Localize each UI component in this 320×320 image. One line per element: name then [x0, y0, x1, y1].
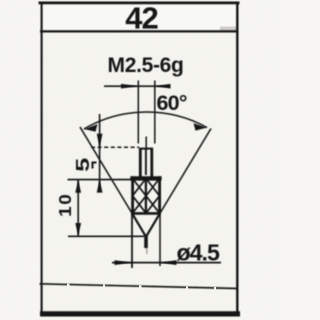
10 dimension line vertical [77, 180, 79, 236]
contact tip cylinder [144, 236, 148, 248]
cone angle line left [80, 127, 146, 237]
frame right border [236, 2, 238, 314]
phi 4.5 extension line right [159, 214, 161, 266]
5 dim arrow top (points down) [97, 134, 103, 147]
phi dim arrow right (points left) [160, 260, 176, 265]
knurl center vertical line [145, 179, 147, 214]
frame bottom thick bar [40, 311, 240, 316]
thread dimension extension line right [154, 81, 156, 144]
frame top border [39, 2, 240, 5]
knurl lattice main diagonal B [133, 179, 160, 214]
svg-text:5: 5 [72, 158, 93, 172]
10 dim arrow top (points up) [75, 180, 81, 193]
nicks in bottom rule [67, 284, 70, 287]
phi 4.5 extension line left [131, 214, 133, 268]
cone tip right slant [146, 214, 160, 237]
knurl lattice main diagonal A [133, 179, 160, 214]
stem top edge [139, 148, 153, 150]
body top thick bar [130, 176, 161, 180]
phi 4.5 dimension line [112, 262, 221, 264]
body left edge [131, 176, 134, 214]
stem right edge [150, 148, 153, 177]
cone angle line right [146, 129, 211, 237]
thread dimension line M2.5 [104, 85, 168, 87]
cone tip left slant [132, 214, 146, 237]
body bottom edge [131, 212, 161, 215]
5 dimension dashed extension (stem top level) [91, 146, 139, 148]
header separator line [40, 30, 238, 32]
knurl lattice half diagonals [133, 179, 160, 214]
centerline above stem [145, 137, 147, 149]
60 degree arc [84, 112, 207, 129]
scan speck near 5 label [92, 162, 97, 169]
5/10 shared extension line (body top level) [68, 179, 132, 181]
thread dimension extension line left [137, 81, 139, 144]
5 dim arrow bottom (points up) [97, 180, 103, 193]
drawing panel interior [41, 3, 237, 314]
svg-text:60°: 60° [157, 91, 187, 115]
svg-text:M2.5-6g: M2.5-6g [108, 54, 184, 77]
phi dim arrow left (points right) [115, 260, 132, 265]
arc arrow right [194, 123, 208, 130]
svg-text:42: 42 [125, 1, 157, 36]
faint tip tail [146, 248, 148, 254]
svg-text:ø4.5: ø4.5 [177, 240, 221, 266]
horizontal rule above bottom bar (scan line) [40, 284, 239, 289]
arc arrow left [84, 124, 98, 132]
stem thread core line [145, 149, 147, 175]
10 dim arrow bottom (points down) [75, 223, 81, 236]
stem left edge [139, 148, 142, 177]
thread dim arrow right [155, 84, 171, 89]
thread dim arrow left [121, 84, 138, 89]
smudge near header rule right [220, 27, 237, 32]
5 dimension line vertical [99, 114, 101, 191]
svg-text:10: 10 [55, 193, 75, 217]
header cell interior [41, 3, 237, 31]
10 bottom extension line (apex level) [68, 235, 144, 237]
body right edge [158, 176, 161, 214]
frame left border [41, 2, 43, 314]
